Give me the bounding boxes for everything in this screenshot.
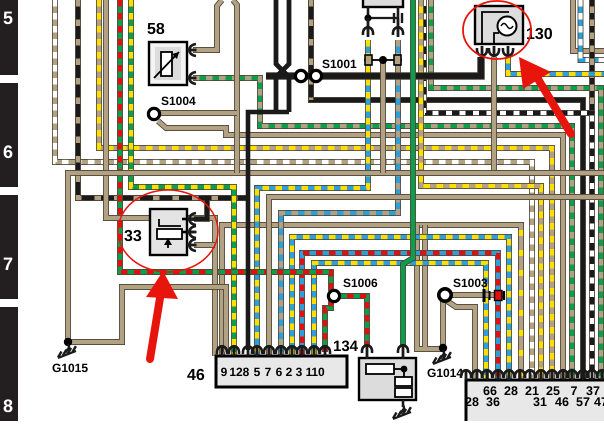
svg-text:46: 46 [187, 367, 205, 384]
svg-text:S1004: S1004 [161, 94, 196, 108]
wire tan S1003 to blue/red join [450, 292, 504, 298]
wire tan/black top-right vertical [589, 0, 595, 113]
wire tan drop to G1014 a [417, 225, 443, 349]
red arrow to 130 [519, 57, 571, 134]
wire green/tan to pin 602 [431, 0, 601, 380]
wire tan stub from S1001 [380, 63, 386, 173]
wire black/tan vertical left [78, 0, 250, 198]
component 58 box [149, 42, 187, 85]
wire yellow dash overlay on pin 521 drop [519, 230, 523, 380]
svg-text:5: 5 [254, 365, 261, 379]
red arrow to 33 [146, 271, 178, 359]
label 130 [526, 26, 553, 43]
wire green/tan from item 58 to pin 572 [193, 78, 572, 380]
svg-text:28: 28 [504, 384, 518, 398]
wire blue/red 46 pin 302 to pin 498 [302, 253, 498, 380]
wire green/red S1006 to 134 left pin [334, 296, 367, 347]
wire tan bus y173 full width [68, 173, 604, 342]
svg-text:10: 10 [311, 365, 325, 379]
wire blue/yellow item 130 right pin to edge [508, 57, 604, 74]
wire tan from S1004 to pin 563 [158, 121, 563, 380]
svg-text:7: 7 [3, 254, 13, 274]
svg-text:58: 58 [147, 21, 165, 38]
svg-text:134: 134 [333, 338, 359, 355]
svg-text:7: 7 [265, 365, 272, 379]
wire black top-center pins [368, 7, 398, 18]
pin 1 of 33 [187, 213, 197, 225]
inline connector at S1003 [484, 289, 504, 302]
wire tan drop to G1014 b [422, 225, 428, 347]
wire black to pin 583 [311, 0, 583, 380]
pin 1 of 130 [477, 46, 487, 56]
svg-text:33: 33 [124, 228, 142, 245]
wire green to 134 right pin [403, 0, 413, 347]
pin numbers of connector 46 [221, 365, 325, 379]
connector bottom-right box [466, 380, 604, 426]
component 130 box [475, 6, 523, 44]
component 134 box [359, 358, 416, 400]
svg-text:3: 3 [296, 365, 303, 379]
ground G1015 [58, 338, 76, 358]
wire yellow/tan to pin 541 [421, 0, 541, 380]
svg-text:G1014: G1014 [427, 366, 463, 380]
svg-text:2: 2 [286, 365, 293, 379]
label G1014 [427, 366, 463, 380]
wire tan S1004 branch [160, 110, 237, 116]
wire blue/tan S1001 right to 46 pin 280 [281, 40, 398, 356]
pins of bottom-right connector [461, 370, 604, 380]
pin 3 of 33 [187, 239, 197, 251]
svg-text:46: 46 [555, 395, 569, 409]
svg-text:G1015: G1015 [52, 361, 88, 375]
label S1001 [322, 57, 357, 71]
svg-text:6: 6 [3, 142, 13, 162]
junction dot S1001 bar [379, 56, 387, 64]
svg-text:57: 57 [576, 395, 590, 409]
wire tan/white to pin 592 [424, 0, 592, 380]
wire green/red item 33 loop to S1006 [120, 0, 331, 291]
pin 2 of 130 [489, 46, 499, 56]
label S1006 [343, 276, 378, 290]
splice circle S1001 a [295, 70, 306, 81]
label 46 [187, 367, 205, 384]
wire blue/white top-right to edge [581, 0, 604, 60]
svg-text:47: 47 [594, 395, 604, 409]
label 33 [124, 228, 142, 245]
label S1004 [161, 94, 196, 108]
svg-text:9: 9 [221, 365, 228, 379]
component 33 box [150, 209, 194, 255]
svg-text:28: 28 [465, 395, 479, 409]
pin 1 of 134 [362, 345, 372, 359]
wire tan/yellow to pin 552 [99, 0, 552, 380]
red highlight ellipse around 33 [118, 190, 218, 272]
red highlight ellipse around 130 [463, 1, 531, 59]
wire tan vertical x106 staircase [106, 0, 215, 356]
svg-text:S1006: S1006 [343, 276, 378, 290]
svg-text:5: 5 [3, 8, 13, 28]
wire black crossover junction [276, 0, 289, 112]
wire tan S1003 down to G1014 [440, 301, 446, 347]
wire tan top-right to edge [573, 0, 604, 51]
connector bars top-center [394, 13, 402, 23]
row index sidebar [0, 0, 18, 421]
junction dot top-center [364, 14, 371, 21]
pin 2 of 134 [398, 345, 408, 359]
pin 3 of 130 [503, 46, 513, 56]
wire green/red S1006 to 46 pin 325 [325, 300, 331, 352]
wire tan G1015 loop [68, 287, 226, 352]
wire blue/yellow 46 pin 314 to pin 486 [314, 263, 486, 380]
wire blue/yellow S1001 left to 46 pin 257 [257, 40, 368, 356]
wire black bus to item 130 left pin [266, 57, 481, 76]
svg-text:S1003: S1003 [453, 276, 488, 290]
pins of connector 46 [217, 346, 330, 356]
junction dot in 134 [401, 366, 408, 373]
splice S1004 [148, 108, 159, 119]
connector 46 box [216, 356, 347, 387]
wire tan item 58 top pin [193, 0, 222, 50]
wire tan S1003 diagonal to pin 475 [447, 301, 475, 380]
svg-text:36: 36 [486, 395, 500, 409]
label 134 [333, 338, 359, 355]
wire green/yellow to 46 pin 234 [131, 0, 234, 356]
ground of 134 [393, 400, 411, 419]
pin arrow top-center right [393, 18, 403, 37]
splice S1003 [439, 289, 451, 301]
wire black item 33 top pin [194, 200, 207, 219]
svg-text:8: 8 [243, 365, 250, 379]
pin numbers of bottom-right connector [465, 384, 604, 409]
svg-text:31: 31 [533, 395, 547, 409]
label S1003 [453, 276, 488, 290]
pin 1 of 58 [187, 44, 197, 56]
pin 2 of 58 [187, 72, 197, 84]
splice bar S1001 [364, 55, 402, 65]
component top-center box [363, 0, 403, 7]
svg-text:S1001: S1001 [322, 57, 357, 71]
splice S1006 [328, 290, 339, 301]
wire tan bus y197 [269, 197, 604, 356]
wire tan/white to pin 532 [55, 0, 532, 380]
wire tan vertical x237 [233, 0, 237, 173]
pin arrow top-center left [363, 18, 373, 37]
svg-text:8: 8 [3, 396, 13, 416]
wire black/tan vertical x311 dashes [308, 0, 314, 100]
wire black to 46 pin 248 [248, 112, 289, 350]
label 58 [147, 21, 165, 38]
svg-text:6: 6 [276, 365, 283, 379]
svg-text:12: 12 [229, 365, 243, 379]
wire tan item 130 middle pin [491, 57, 497, 173]
wire tan item 33 bottom pin [194, 242, 215, 248]
wire tan bus to pin 521 with ends down [222, 225, 521, 380]
label G1015 [52, 361, 88, 375]
pin 2 of 33 [187, 226, 197, 238]
ground G1014 [433, 344, 451, 364]
wire blue/yellow 46 pin 292 to pin 509 [292, 237, 509, 380]
splice circle S1001 b [310, 70, 321, 81]
